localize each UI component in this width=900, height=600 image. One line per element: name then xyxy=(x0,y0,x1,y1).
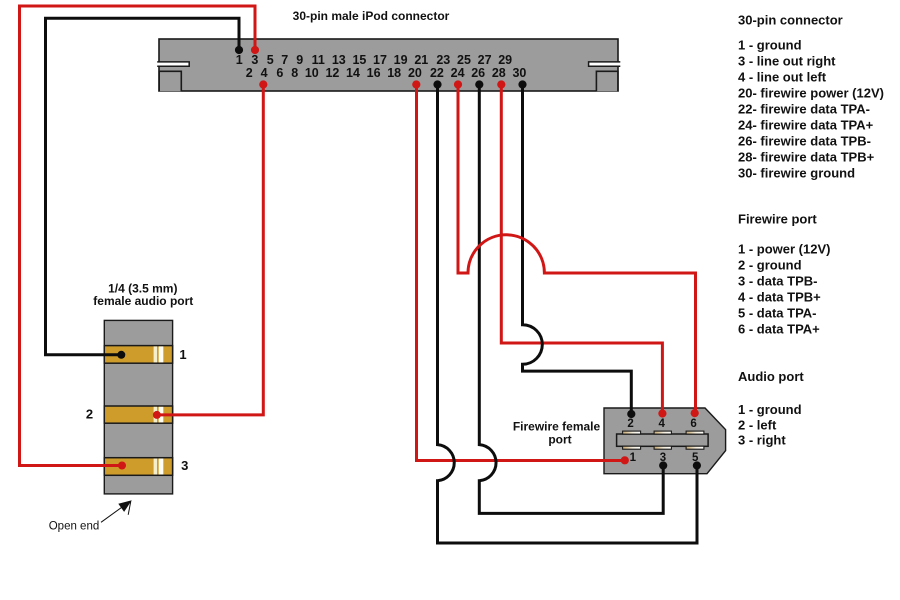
svg-text:2 - left: 2 - left xyxy=(738,417,777,432)
svg-text:23: 23 xyxy=(436,53,450,67)
svg-text:4: 4 xyxy=(658,418,665,430)
svg-text:16: 16 xyxy=(367,66,381,80)
svg-text:3 - data TPB-: 3 - data TPB- xyxy=(738,273,817,288)
svg-text:4 - data TPB+: 4 - data TPB+ xyxy=(738,289,821,304)
svg-text:port: port xyxy=(548,432,571,446)
svg-text:female audio port: female audio port xyxy=(93,294,193,308)
svg-text:1 - ground: 1 - ground xyxy=(738,402,802,417)
svg-text:3 - right: 3 - right xyxy=(738,433,786,448)
svg-text:28- firewire data TPB+: 28- firewire data TPB+ xyxy=(738,150,875,165)
svg-text:20: 20 xyxy=(408,66,422,80)
svg-text:22: 22 xyxy=(430,66,444,80)
svg-text:3: 3 xyxy=(181,458,188,473)
svg-text:26: 26 xyxy=(471,66,485,80)
svg-text:7: 7 xyxy=(281,53,288,67)
svg-text:1 - ground: 1 - ground xyxy=(738,38,802,53)
svg-text:10: 10 xyxy=(305,66,319,80)
svg-text:24- firewire data TPA+: 24- firewire data TPA+ xyxy=(738,118,874,133)
svg-text:3 - line out right: 3 - line out right xyxy=(738,54,836,69)
svg-text:Firewire port: Firewire port xyxy=(738,212,817,227)
svg-text:15: 15 xyxy=(352,53,366,67)
svg-text:2: 2 xyxy=(86,407,93,422)
svg-text:12: 12 xyxy=(325,66,339,80)
svg-text:30: 30 xyxy=(512,66,526,80)
svg-text:29: 29 xyxy=(498,53,512,67)
svg-text:24: 24 xyxy=(451,66,465,80)
svg-text:20- firewire power (12V): 20- firewire power (12V) xyxy=(738,86,884,101)
svg-text:2: 2 xyxy=(627,418,633,430)
svg-text:1: 1 xyxy=(236,53,243,67)
svg-text:9: 9 xyxy=(296,53,303,67)
svg-text:3: 3 xyxy=(660,452,666,464)
svg-text:30- firewire ground: 30- firewire ground xyxy=(738,166,855,181)
svg-text:6: 6 xyxy=(276,66,283,80)
svg-text:1: 1 xyxy=(630,452,637,464)
svg-text:Audio port: Audio port xyxy=(738,369,804,384)
svg-text:6 - data TPA+: 6 - data TPA+ xyxy=(738,321,820,336)
svg-text:Open end: Open end xyxy=(49,521,100,533)
svg-text:25: 25 xyxy=(457,53,471,67)
svg-text:3: 3 xyxy=(251,53,258,67)
svg-text:27: 27 xyxy=(478,53,492,67)
svg-text:2: 2 xyxy=(246,66,253,80)
svg-text:5: 5 xyxy=(692,452,699,464)
svg-text:30-pin connector: 30-pin connector xyxy=(738,13,843,28)
svg-text:14: 14 xyxy=(346,66,360,80)
svg-text:6: 6 xyxy=(690,418,696,430)
svg-text:4 - line out left: 4 - line out left xyxy=(738,70,827,85)
svg-text:5 - data TPA-: 5 - data TPA- xyxy=(738,305,817,320)
svg-text:5: 5 xyxy=(267,53,274,67)
svg-text:13: 13 xyxy=(332,53,346,67)
svg-text:1 - power (12V): 1 - power (12V) xyxy=(738,241,830,256)
svg-text:18: 18 xyxy=(387,66,401,80)
svg-text:30-pin male iPod connector: 30-pin male iPod connector xyxy=(293,9,450,23)
svg-text:21: 21 xyxy=(414,53,428,67)
svg-text:19: 19 xyxy=(394,53,408,67)
svg-text:8: 8 xyxy=(291,66,298,80)
svg-text:1: 1 xyxy=(179,347,186,362)
svg-text:11: 11 xyxy=(312,53,325,67)
svg-text:22- firewire data TPA-: 22- firewire data TPA- xyxy=(738,102,870,117)
svg-text:26- firewire data TPB-: 26- firewire data TPB- xyxy=(738,134,871,149)
svg-text:28: 28 xyxy=(492,66,506,80)
svg-text:2 - ground: 2 - ground xyxy=(738,257,802,272)
svg-text:4: 4 xyxy=(261,66,268,80)
svg-text:17: 17 xyxy=(373,53,387,67)
